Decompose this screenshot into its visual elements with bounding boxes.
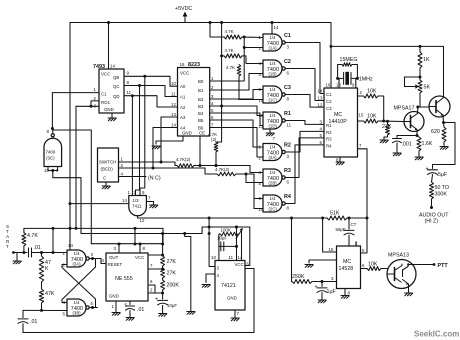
ground NE555 pin1 [112, 313, 120, 316]
ground under switch [102, 186, 110, 189]
node L2 at x135 [134, 227, 137, 230]
svg-text:10K: 10K [367, 89, 377, 95]
svg-text:13: 13 [171, 112, 176, 117]
svg-text:R3: R3 [284, 168, 291, 174]
node +5VDC supply arrow [175, 6, 192, 23]
resistor 27K timer no1 [161, 256, 165, 266]
node B0 bus join [243, 46, 246, 49]
wire 3A pin14 to L2 [69, 228, 71, 250]
wire pin 14 riser [241, 231, 243, 261]
ground under 1.6K [415, 157, 423, 160]
node x209 crossing join [208, 226, 211, 229]
svg-text:5: 5 [211, 108, 214, 113]
svg-text:CT: CT [351, 222, 357, 227]
svg-text:3: 3 [91, 252, 94, 257]
ground under 74121 [231, 318, 239, 321]
svg-text:8: 8 [143, 246, 146, 251]
svg-text:12: 12 [171, 102, 176, 107]
IC U1 7493 counter [99, 69, 124, 113]
gate C2 1/4 7400 (1B) [263, 60, 285, 77]
svg-text:5K: 5K [424, 85, 431, 91]
resistor 4.7K START pullup [22, 233, 26, 247]
node START terminal [6, 224, 15, 254]
node 47K bottom join [40, 309, 43, 312]
wire 7493 QC pin 8 [124, 86, 178, 97]
svg-text:C2: C2 [326, 99, 332, 104]
wire 5K wiper loop [405, 86, 416, 88]
capacitor 10uF timer [158, 300, 168, 304]
svg-text:4.7K: 4.7K [225, 48, 234, 53]
capacitor 10uF timing [221, 242, 224, 251]
wire 74121 pin4 loop [206, 274, 215, 283]
svg-text:12: 12 [259, 113, 264, 118]
resistor 1.6K [417, 137, 421, 151]
svg-text:2: 2 [259, 156, 262, 161]
resistor 200K [161, 280, 165, 290]
svg-text:5: 5 [362, 248, 365, 253]
IC U2 8223 PROM [178, 68, 210, 137]
svg-text:16: 16 [329, 247, 334, 252]
wire switch pin2 to A4 [153, 128, 178, 169]
svg-text:A0: A0 [180, 84, 186, 89]
wire 100K top line [209, 226, 236, 228]
node tone sum [382, 120, 385, 123]
switch S1 BCD [98, 148, 119, 182]
node 7493 reset junction [90, 105, 93, 108]
svg-text:11: 11 [127, 90, 132, 95]
wire pin10 entry [218, 254, 220, 261]
wire 5K bottom to driver node [418, 93, 421, 107]
wire pin 11 riser [236, 227, 238, 261]
ground of 7400 pin 7 [266, 133, 274, 136]
svg-text:3: 3 [211, 94, 214, 99]
resistor 4.7K(2) no1 [177, 164, 194, 168]
svg-text:250K: 250K [292, 274, 305, 280]
node QC tap [138, 84, 141, 87]
wire 7493 reset pins 2-3 jumper [91, 101, 99, 106]
svg-text:11: 11 [287, 123, 292, 128]
wire pot left drop [219, 234, 220, 246]
svg-text:2: 2 [150, 288, 153, 293]
wire 10K no2 to MPSA17 base [378, 120, 404, 123]
node 555 rail at x135 [134, 243, 137, 246]
svg-text:GND: GND [227, 296, 237, 301]
svg-text:.001: .001 [402, 142, 412, 148]
node 27K mid join [161, 268, 164, 271]
wire L3 ground drop [185, 234, 191, 312]
wire switch pin 1 [119, 161, 173, 163]
wire driver node to output base [418, 106, 429, 108]
svg-text:2: 2 [211, 85, 214, 90]
node crystal right pin [356, 77, 359, 80]
wire pin2 jog to 4.7K no2 [205, 168, 217, 174]
svg-text:QD: QD [113, 94, 120, 99]
wire cap to latch input [32, 252, 68, 254]
wire emitter to coupling cap [433, 123, 456, 169]
svg-text:R2: R2 [284, 143, 291, 149]
svg-text:3: 3 [331, 276, 334, 281]
wire switch pin1 to A3 [161, 117, 178, 162]
svg-text:14: 14 [171, 122, 176, 127]
svg-text:+: + [155, 297, 158, 303]
capacitor 56pF CT [344, 230, 354, 234]
wire 3A output to 555 reset [89, 259, 106, 264]
transistor Q3 MPSA13 darlington [387, 260, 416, 289]
node latch in join x53 [52, 251, 55, 254]
svg-text:6: 6 [211, 115, 214, 120]
svg-text:14: 14 [318, 89, 323, 94]
svg-text:R4: R4 [326, 144, 332, 149]
wire NE555 vcc up [139, 244, 141, 253]
svg-text:7: 7 [211, 123, 214, 128]
node rail junction at 7493 VCC [107, 21, 110, 24]
wire pin 2 riser [355, 242, 357, 246]
node latch in join x41 [40, 251, 43, 254]
node gate 3C input join [51, 169, 54, 172]
wire MC14528 pin 6 out [361, 268, 368, 270]
node output emitter junction [442, 121, 445, 124]
wire 1uF to ground [321, 293, 323, 300]
svg-text:12: 12 [140, 218, 145, 223]
svg-text:C1: C1 [326, 92, 332, 97]
node L3 at ground drop [183, 232, 186, 235]
wire MC14410 pin 7 to MC14528 [358, 149, 368, 218]
wire output collector [442, 97, 445, 99]
node rail junction at 4.7K pullups [220, 21, 223, 24]
svg-text:(1D): (1D) [269, 124, 278, 129]
svg-text:56pF: 56pF [336, 227, 346, 232]
svg-text:B2: B2 [198, 97, 204, 102]
node pullup x221 at B3 [220, 105, 223, 108]
wire QB tap down to 7411 [140, 76, 145, 195]
wire riser to MC14528 pin 5 [361, 218, 368, 253]
wire NE555 vcc side stub [148, 254, 163, 256]
wire gate C1 output to MC14410 [285, 43, 324, 94]
node 100K top [235, 226, 238, 229]
svg-text:3: 3 [114, 246, 117, 251]
svg-text:RESET: RESET [108, 262, 123, 267]
gate R1 1/4 7400 (1D) [263, 112, 285, 129]
resistor 10K PTT [367, 267, 381, 271]
ground under .001 [393, 153, 401, 156]
wire latch low input line [23, 309, 67, 311]
svg-text:4.7K: 4.7K [226, 65, 235, 70]
svg-text:2: 2 [94, 96, 97, 101]
wire START to cap [14, 252, 28, 254]
wire x53 drop [52, 228, 54, 252]
wire 56pF bottom to pin [348, 235, 350, 246]
svg-text:1: 1 [121, 157, 124, 162]
svg-text:(HI Z): (HI Z) [425, 219, 439, 225]
svg-text:50 TO: 50 TO [435, 185, 450, 191]
capacitor 1uF [317, 288, 327, 292]
wire x135 drop to 555 rail [134, 228, 136, 244]
wire 47K chain top [41, 253, 43, 257]
svg-text:100K: 100K [221, 228, 231, 233]
svg-text:8: 8 [287, 97, 290, 102]
wire MC14410 VCC pin 16 [330, 46, 332, 88]
IC U4 MC14410P [324, 88, 358, 157]
svg-text:3: 3 [320, 120, 323, 125]
wire gate 3C output to timer [52, 130, 91, 244]
node 56pF top [348, 217, 351, 220]
svg-text:51K: 51K [330, 211, 340, 217]
svg-text:(1C): (1C) [269, 98, 278, 103]
svg-text:4: 4 [211, 101, 214, 106]
svg-text:2: 2 [259, 46, 262, 51]
svg-text:K: K [45, 266, 49, 272]
wire 27K chain mid [162, 266, 164, 268]
wire pin1 jog to 4.7K [172, 162, 177, 166]
node R4 bus tap [245, 173, 248, 176]
svg-text:8: 8 [348, 291, 351, 296]
svg-text:A3: A3 [180, 115, 186, 120]
gate C1 1/4 7400 (1A) [263, 34, 285, 51]
svg-text:B4: B4 [198, 111, 204, 116]
svg-text:R1: R1 [284, 111, 291, 117]
gate R2 1/4 7400 (2A) [263, 144, 285, 161]
wire 3B output stub [89, 307, 97, 309]
svg-text:7: 7 [273, 136, 276, 141]
svg-text:7: 7 [150, 263, 153, 268]
svg-text:7493: 7493 [93, 64, 105, 70]
capacitor .01 bottom left [18, 319, 28, 323]
svg-text:MPSA13: MPSA13 [388, 253, 409, 259]
wire MC14528 pin 8 stub [344, 289, 346, 296]
resistor 4.7K pullup no2 [224, 54, 242, 58]
wire crystal left [338, 77, 343, 79]
wire pullup drop x210 [209, 23, 211, 38]
node 1uF tap [321, 280, 324, 283]
svg-text:(3B): (3B) [73, 311, 82, 316]
wire 7493 reset to START line [76, 106, 91, 228]
svg-text:15MEG: 15MEG [340, 57, 358, 63]
svg-text:(3C): (3C) [46, 156, 55, 161]
wire 47K no2 bottom [41, 303, 43, 310]
ground under 27K [380, 140, 388, 143]
svg-text:13: 13 [318, 96, 323, 101]
gate U3A 1/4 7400 latch [67, 250, 89, 267]
wire 15MEG loop right [352, 65, 357, 79]
resistor 27K timer no2 [161, 268, 165, 278]
svg-text:1/4: 1/4 [270, 87, 277, 92]
wire x209 to 74121 pin [209, 234, 215, 267]
wire level pot to audio terminal [431, 199, 433, 208]
svg-text:C1: C1 [101, 92, 107, 97]
wire 10uF to ground [162, 305, 164, 313]
wire 7411 pin 7 to ground [146, 202, 153, 206]
resistor 1K [418, 52, 422, 68]
node rail junction gate C1 pin14 [271, 21, 274, 24]
wire B4 to gate R1 second [210, 113, 263, 126]
svg-text:300K: 300K [435, 192, 448, 198]
wire 4.7K no2 to gate C2 input [242, 56, 263, 64]
svg-text:14: 14 [110, 64, 115, 69]
wire gate 3C output up [52, 129, 54, 134]
svg-text:B0: B0 [198, 79, 204, 84]
capacitor .5uF coupling [428, 170, 438, 175]
wire 7493 VCC to rail [108, 23, 110, 70]
wire gate 3C input feed to timing line [53, 171, 250, 234]
svg-text:(2B): (2B) [269, 181, 278, 186]
wire .01 low cap stub [22, 310, 24, 317]
svg-text:MC: MC [334, 112, 342, 118]
wire 8223 CE pulldown [199, 136, 201, 166]
svg-text:6: 6 [320, 140, 323, 145]
svg-text:10: 10 [259, 207, 264, 212]
potentiometer 100K arrow [236, 230, 242, 239]
svg-text:10: 10 [171, 81, 176, 86]
svg-text:9: 9 [352, 83, 355, 88]
node one-shot out at x209 [208, 232, 211, 235]
wire 8223 GND stub [156, 136, 183, 144]
wire bottom long line [23, 269, 254, 333]
svg-text:5: 5 [63, 312, 66, 317]
svg-text:R1: R1 [326, 123, 332, 128]
wire 4.7K(2) no1 to bus [194, 165, 250, 167]
wire 10uF cap line [219, 245, 237, 247]
wire rail to 1K [419, 46, 421, 52]
svg-text:(BCD): (BCD) [101, 167, 114, 172]
svg-text:B5: B5 [198, 118, 204, 123]
wire top rail right section [331, 23, 444, 97]
wire 27K2 to 200K [162, 278, 164, 280]
svg-text:5: 5 [259, 181, 262, 186]
svg-text:(2C): (2C) [269, 207, 278, 212]
svg-text:27K: 27K [382, 124, 392, 130]
svg-text:VCC: VCC [180, 71, 189, 76]
svg-text:R3: R3 [326, 137, 332, 142]
wire 4.7K(2) no2 to R3 R4 inputs [236, 174, 263, 183]
svg-text:(2A): (2A) [269, 155, 278, 160]
node QB tap [143, 75, 146, 78]
svg-text:7: 7 [237, 311, 240, 316]
crystal Y1 1MHz [344, 72, 351, 85]
wire 51K right end [347, 217, 367, 219]
resistor 100K timing pot [220, 232, 238, 236]
svg-text:1/3: 1/3 [133, 198, 140, 203]
node gate 3C output junction [51, 127, 54, 130]
svg-text:6: 6 [91, 301, 94, 306]
wire B5 to gate R2 [210, 120, 263, 147]
node rail junction at MC14410 VCC [330, 45, 333, 48]
wire emitter to 620 [443, 123, 446, 128]
svg-text:4.7K(2): 4.7K(2) [176, 157, 191, 162]
svg-text:6: 6 [287, 71, 290, 76]
wire switch pin 2 [119, 167, 206, 169]
capacitor .01 NE555 pin5 [126, 306, 135, 310]
svg-text:8: 8 [47, 129, 50, 134]
wire bus riser to R4 input [246, 174, 263, 199]
wire 27K to ground [387, 121, 389, 124]
wire crystal right [352, 77, 358, 79]
ground on timing line [187, 312, 195, 315]
svg-text:8223: 8223 [188, 62, 200, 68]
svg-text:14: 14 [274, 25, 279, 30]
node cap right join [235, 245, 238, 248]
ground of 7411 [150, 205, 158, 208]
svg-text:14528: 14528 [339, 266, 354, 272]
node PTT terminal [433, 263, 436, 266]
node reset riser on L2 [75, 227, 78, 230]
svg-text:7400: 7400 [46, 150, 56, 155]
wire gate R1 output to MC14410 [285, 121, 324, 125]
svg-text:C3: C3 [284, 85, 291, 91]
svg-text:+5VDC: +5VDC [175, 6, 192, 12]
wire pin5 cap to ground [129, 311, 131, 318]
wire MC14410 pin 15 out [358, 120, 364, 122]
wire 4.7K pullup top [23, 228, 25, 232]
wire B3 to gate R1 [210, 106, 263, 116]
potentiometer 5K wiper arrow [416, 86, 419, 88]
svg-text:SeekIC.com: SeekIC.com [414, 330, 459, 339]
wire NE555 pin1 stub [115, 301, 117, 313]
wire x209 drop [208, 218, 210, 234]
transistor Q2 output [429, 96, 450, 117]
resistor 10K tone no1 [364, 94, 379, 98]
wire MC14528 pin16 feed [323, 218, 337, 252]
svg-text:GND: GND [109, 294, 119, 299]
svg-text:47K: 47K [45, 291, 55, 297]
svg-text:PTT: PTT [438, 263, 449, 269]
wire 4.7K no2 left end [222, 55, 224, 57]
svg-text:(3A): (3A) [73, 262, 82, 267]
node L3 at 27K chain [161, 232, 164, 235]
svg-text:GND: GND [182, 131, 192, 136]
wire 56pF top [348, 218, 350, 229]
wire gate R4 output to MC14410 [285, 145, 324, 204]
gate C3 1/4 7400 (1C) [263, 86, 285, 103]
wire emitter to .001 cap [397, 136, 417, 138]
svg-text:C2: C2 [284, 59, 291, 65]
svg-text:4: 4 [121, 172, 124, 177]
node out join [235, 226, 238, 229]
node L1 at 250K riser [290, 217, 293, 220]
wire NE555 pin 6 [148, 285, 163, 293]
svg-text:NE 555: NE 555 [115, 276, 133, 282]
node 1K 5K junction [419, 76, 422, 79]
svg-text:1: 1 [112, 304, 115, 309]
svg-text:C: C [103, 176, 106, 181]
svg-text:1/4: 1/4 [74, 300, 81, 305]
svg-text:(N C): (N C) [148, 176, 161, 182]
wire MPSA13 emitter [408, 288, 410, 293]
wire output emitter [442, 115, 445, 123]
svg-text:R4: R4 [284, 194, 291, 200]
node pullup x221 at 4.7K2 line [220, 54, 223, 57]
ground left of MC14528 [305, 265, 313, 268]
svg-text:B3: B3 [198, 104, 204, 109]
resistor 250K [292, 280, 312, 284]
svg-text:3: 3 [287, 45, 290, 50]
svg-text:13: 13 [259, 124, 264, 129]
resistor 4.7K pullup no3 [237, 65, 241, 77]
svg-text:A1: A1 [180, 94, 186, 99]
wire gate R3 output to MC14410 [285, 138, 324, 178]
wire 4.7K no1 to gate C1 input [242, 36, 263, 39]
ground NE555 pin5 [126, 318, 134, 321]
ground under 620 [440, 147, 448, 150]
svg-text:5: 5 [142, 190, 145, 195]
wire crystal pin 10 stub [338, 78, 340, 88]
node AUDIO OUT terminal [430, 206, 433, 209]
svg-text:4: 4 [217, 273, 220, 278]
wire 4.7K vertical bottom to CE line [215, 152, 217, 166]
wire 250K to pin 3 [312, 281, 337, 283]
svg-text:C1: C1 [284, 33, 291, 39]
wire 4.7K no3 to gate C3 input [239, 76, 263, 99]
IC U8 MC14528 [337, 246, 361, 289]
